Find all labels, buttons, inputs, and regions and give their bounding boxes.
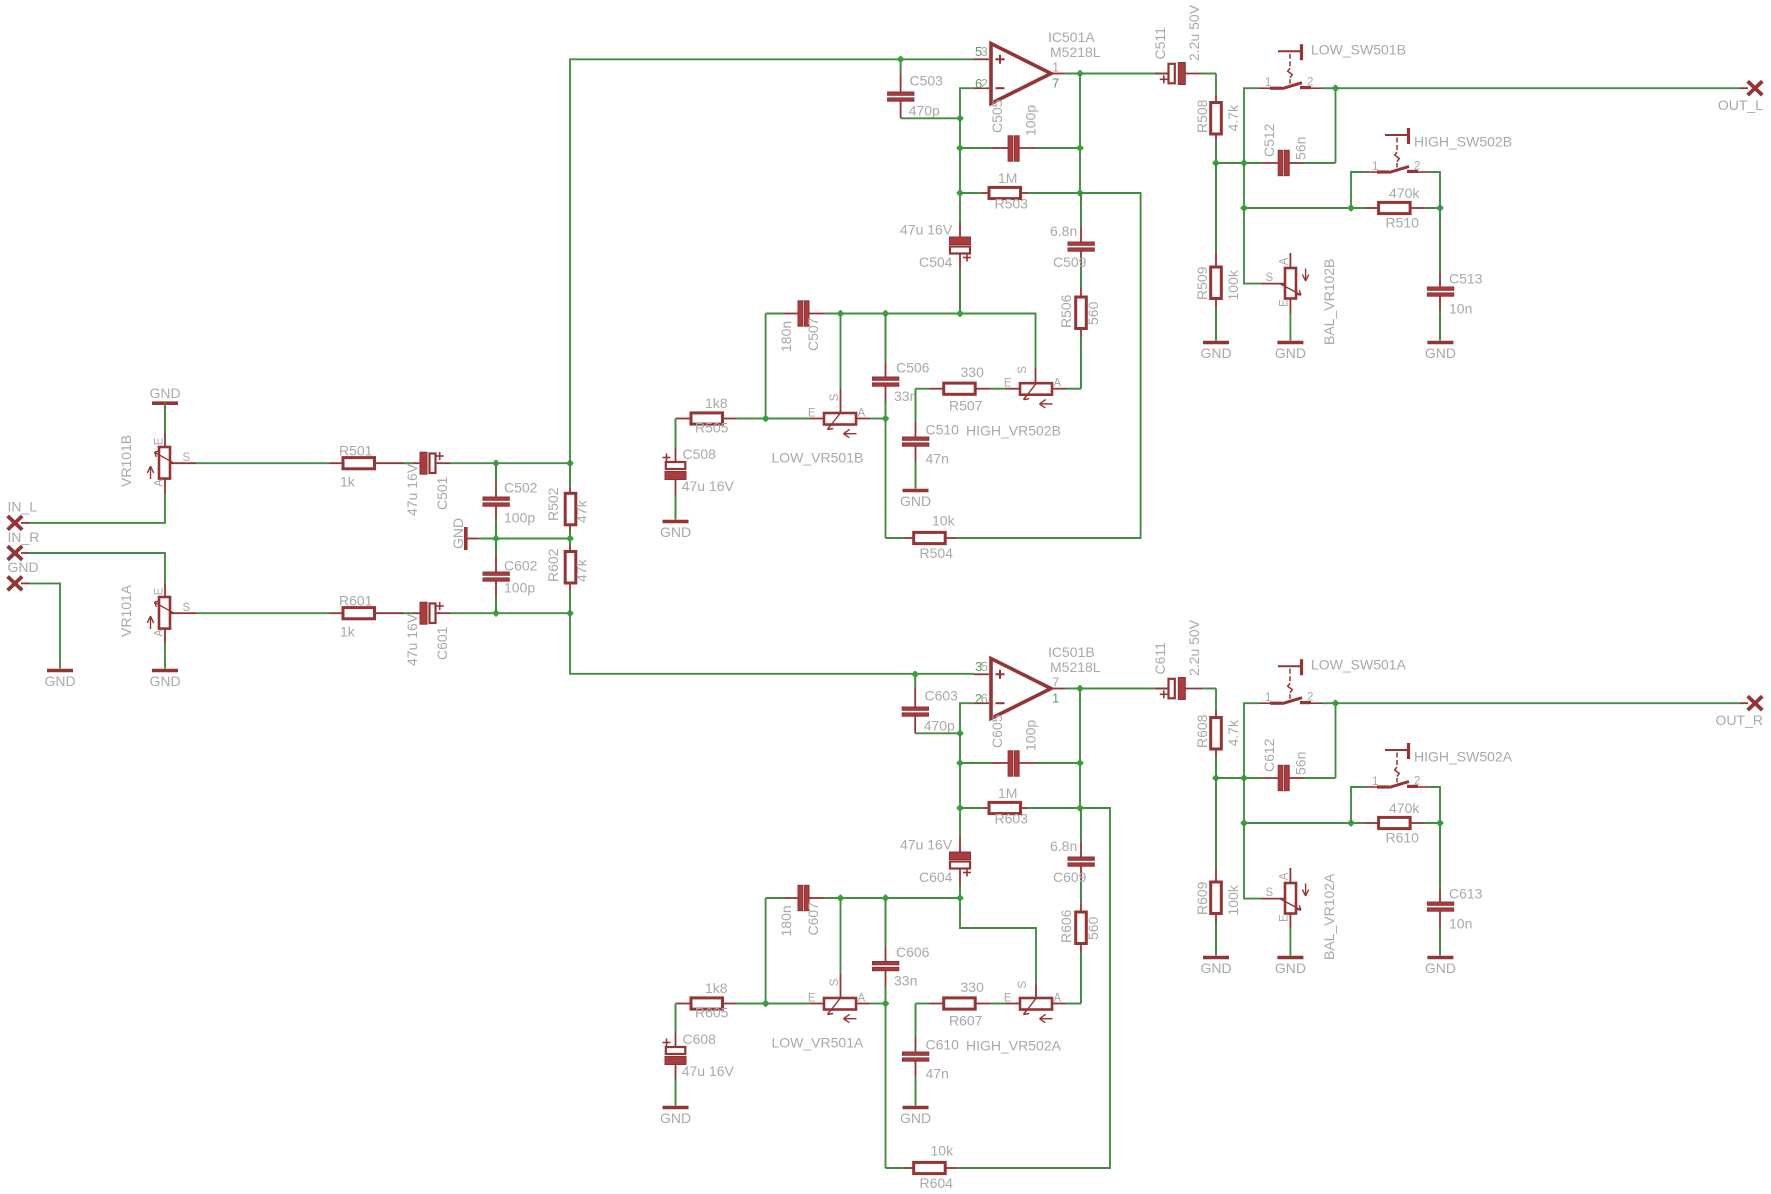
pin label E of LOW_VR501A [808,992,816,1004]
junction at R503 right / C509 top [1076,189,1084,197]
svg-text:A: A [154,629,166,637]
value 1k of R601 [340,624,356,640]
svg-text:S: S [183,452,191,464]
capacitor C501 (47u 16V electrolytic) [404,452,450,474]
wire riser down to BAL_VR102B wiper [1244,208,1261,284]
resistor R502 [565,463,576,538]
wire -input node down to C504/R503 branch [959,118,961,222]
label C503 [910,73,944,89]
svg-text:GND: GND [149,385,180,401]
capacitor C604 (47u 16V electrolytic) [950,837,972,898]
svg-text:GND: GND [1200,345,1231,361]
label IN_L [8,499,38,515]
svg-text:10k: 10k [932,513,956,529]
junction R610 right [1436,819,1444,827]
label C504 [919,254,953,270]
potentiometer BAL_VR102B [1261,253,1309,314]
wire riser to LOW_SW501A pin 1 [1244,703,1259,778]
capacitor C502 (100p) [483,463,509,538]
svg-text:R608: R608 [1194,714,1210,748]
junction at + rail / C503 [897,55,905,63]
wire -input node down to C504/R503 branch [959,733,961,837]
junction riser at R510 row [1240,204,1248,212]
svg-text:2: 2 [1414,775,1420,787]
junction output node [1076,685,1084,693]
svg-text:6: 6 [981,691,988,706]
svg-text:C510: C510 [926,422,960,438]
svg-text:C606: C606 [896,944,930,960]
svg-text:47k: 47k [574,558,590,582]
node IN_R (X mark) [8,546,30,560]
value 47u 16V of C501 [404,463,420,516]
svg-text:A: A [858,407,866,419]
wire -input of IC501A [960,88,974,118]
value 1k of R501 [340,474,356,490]
svg-text:1k8: 1k8 [705,980,728,996]
pin label E of HIGH_VR502A [1004,992,1012,1004]
capacitor C512 (56n) [1262,150,1336,175]
junction summing node (LOW_VR501B A / C506 / R504) [882,415,890,423]
svg-text:R604: R604 [920,1175,954,1191]
wire feedback loop to R604 [956,808,1110,1168]
label R503 [995,196,1029,212]
pin label E of BAL_VR102A [1279,914,1291,922]
wire tone rail (wiper bus) [766,313,960,315]
node IN_L (X mark) [8,516,30,530]
capacitor C602 (100p) [483,539,509,614]
label C601 [434,626,450,660]
value 10n of C613 [1449,916,1472,932]
svg-text:180n: 180n [778,905,794,936]
svg-text:GND: GND [660,524,691,540]
junction at riser x1244 [1240,774,1248,782]
label R610 [1386,830,1420,846]
value 470k of R510 [1389,185,1420,201]
capacitor C510 (47n) [903,389,929,489]
value 1k8 of R505 [705,395,728,411]
pin label E of VR101B [154,437,166,445]
wire output node down to feedback [1079,74,1081,194]
switch HIGH_SW502B [1351,128,1440,208]
wire node A up to IC501A + rail [570,59,974,463]
svg-text:C612: C612 [1261,738,1277,772]
svg-text:GND: GND [450,518,466,549]
label R604 [920,1175,954,1191]
svg-text:R507: R507 [949,398,983,414]
svg-text:GND: GND [1200,960,1231,976]
junction at riser x1244 [1240,159,1248,167]
svg-text:1: 1 [1052,691,1059,706]
svg-text:E: E [1004,378,1012,390]
svg-text:C511: C511 [1152,27,1168,60]
label HIGH_VR502A [966,1037,1062,1053]
wire LOW_VR501A wiper riser [840,898,842,998]
svg-text:1: 1 [1265,77,1271,89]
svg-text:GND: GND [1425,345,1456,361]
value 1M of R603 [998,785,1017,801]
wire R505 to LOW_VR501B pin E [766,418,810,420]
value 47n of C510 [926,451,949,467]
label R508 [1194,99,1210,133]
wire rail corner down to HIGH_VR502B wiper [960,314,1036,384]
pin number 7 (out, green) of IC501A [1052,76,1059,91]
svg-text:GND: GND [900,493,931,509]
svg-text:C609: C609 [1053,869,1087,885]
wire VR101A pin A to ground [164,644,166,669]
junction at C502/C602 mid [492,535,500,543]
value 470p of C503 [909,103,940,119]
svg-text:S: S [1266,887,1274,899]
wire GND input to ground symbol [30,583,60,668]
label C501 [434,476,450,510]
junction at C505 right [1076,144,1084,152]
svg-text:E: E [1279,914,1291,922]
pin label S of HIGH_VR502B [1017,366,1029,374]
pin number 1 of HIGH_SW502A [1372,776,1378,788]
svg-text:GND: GND [660,1110,691,1126]
value 33n of C606 [894,973,917,989]
wire VR101A wiper to R601 [196,612,329,614]
wire -input of IC501B [960,703,974,733]
ground GND (below C608) [660,1108,691,1127]
resistor R602 [565,539,576,614]
svg-text:470k: 470k [1389,800,1420,816]
ground GND (below C610) [900,1108,931,1127]
svg-text:C502: C502 [504,480,538,496]
svg-text:GND: GND [1275,345,1306,361]
svg-text:C509: C509 [1053,254,1087,270]
wire LOW_VR501B pin A to summing node [870,418,886,420]
svg-text:47u 16V: 47u 16V [900,222,953,238]
pin number 2 of LOW_SW501B [1307,77,1313,89]
junction -input node [956,729,964,737]
svg-text:C608: C608 [683,1031,717,1047]
svg-text:BAL_VR102A: BAL_VR102A [1321,873,1337,960]
value 47u 16V of C508 [682,478,735,494]
label C610 [926,1037,960,1053]
value 100p of C602 [504,580,535,596]
svg-text:C602: C602 [504,558,538,574]
resistor R503 (1M) [960,187,1080,198]
svg-text:VR101B: VR101B [118,435,134,487]
label VR101A [118,584,134,637]
svg-text:A: A [1279,872,1291,880]
resistor R508 (4.7k) [1211,74,1222,164]
svg-text:C504: C504 [919,254,953,270]
junction at C505 left [956,144,964,152]
label C604 [919,869,953,885]
wire ground to bias divider mid node [478,538,570,540]
pin label A of HIGH_VR502B [1054,378,1062,390]
junction at R603 right / C609 top [1076,804,1084,812]
label C606 [896,944,930,960]
svg-text:560: 560 [1085,916,1101,940]
label C609 [1053,869,1087,885]
capacitor C611 (2.2u 50V electrolytic) [1155,678,1216,700]
label BAL_VR102B [1321,259,1337,345]
wire riser down to R510 row [1243,163,1245,208]
svg-text:HIGH_VR502B: HIGH_VR502B [966,423,1061,439]
svg-text:47u 16V: 47u 16V [682,1063,735,1079]
svg-text:56n: 56n [1293,752,1309,775]
wire C601 to bias node B (net to R602 bottom) [450,612,570,614]
svg-text:R610: R610 [1386,830,1420,846]
svg-text:S: S [1017,366,1029,374]
svg-text:E: E [154,587,166,595]
label R601 [339,593,373,609]
label HIGH_VR502B [966,423,1061,439]
svg-text:6.8n: 6.8n [1050,223,1077,239]
pin number 6 (-in, green) of IC501A [975,76,982,91]
svg-text:R505: R505 [695,420,729,436]
svg-text:560: 560 [1085,301,1101,325]
label OUT_R [1716,712,1763,728]
pin number 1 of LOW_SW501A [1265,692,1271,704]
label R504 [920,545,954,561]
svg-text:IN_R: IN_R [8,529,40,545]
label R505 [695,420,729,436]
ground GND (below R609) [1200,958,1231,977]
svg-text:10k: 10k [931,1143,955,1159]
ground GND (below C513) [1425,343,1456,362]
junction at R603 left [956,804,964,812]
potentiometer LOW_VR501B [810,413,870,438]
junction output node [1076,70,1084,78]
svg-text:OUT_L: OUT_L [1718,97,1763,113]
label LOW_SW501B [1311,42,1406,58]
svg-text:C610: C610 [926,1037,960,1053]
wire output node of IC501B [1065,688,1168,690]
value M5218L of IC501B [1050,659,1101,675]
label C512 [1261,123,1277,157]
junction at node A / R502 top [566,459,574,467]
wire LOW_VR501A pin A to summing node [870,1003,886,1005]
wire BAL_VR102B pin E to ground [1289,314,1291,341]
ground GND (above VR101B) [149,385,180,433]
svg-text:C605: C605 [989,714,1005,748]
svg-text:S: S [1266,272,1274,284]
resistor R609 (100k) [1211,778,1222,956]
label C612 [1261,738,1277,772]
wire riser to LOW_SW501B pin 1 [1244,88,1259,163]
label LOW_VR501A [772,1035,864,1051]
svg-text:VR101A: VR101A [118,584,134,637]
pin label A of VR101B [154,479,166,487]
junction at R502/R602 mid [566,535,574,543]
label IC501A [1048,29,1095,45]
svg-text:R606: R606 [1058,909,1074,943]
pin label A of LOW_VR501A [858,992,866,1004]
svg-text:10n: 10n [1449,916,1472,932]
label R509 [1194,266,1210,300]
svg-text:GND: GND [149,673,180,689]
pin label S of LOW_VR501A [829,978,841,986]
value 180n of C607 [778,905,794,936]
svg-text:R609: R609 [1194,881,1210,915]
junction at R503 left [956,189,964,197]
svg-text:2: 2 [981,76,988,91]
svg-text:R509: R509 [1194,266,1210,300]
junction tone rail at LOW_VR501B wiper [837,310,845,318]
svg-text:LOW_SW501A: LOW_SW501A [1311,657,1407,673]
value 47u 16V of C601 [404,613,420,666]
pin label A of LOW_VR501B [858,407,866,419]
value 100p of C502 [504,510,535,526]
label R507 [949,398,983,414]
value 47u 16V of C504 [900,222,953,238]
wire C603 to -input node [915,732,960,734]
svg-text:1M: 1M [998,170,1017,186]
resistor R501 [329,458,404,469]
svg-text:100p: 100p [504,580,535,596]
label IN_R [8,529,40,545]
svg-text:E: E [1004,992,1012,1004]
label BAL_VR102A [1321,873,1337,960]
label C510 [926,422,960,438]
capacitor C601 (47u 16V electrolytic) [404,602,450,624]
capacitor C612 (56n) [1262,765,1336,790]
svg-text:S: S [829,978,841,986]
pin label A of VR101A [154,629,166,637]
value 6.8n of C509 [1050,223,1077,239]
svg-text:47u 16V: 47u 16V [404,613,420,666]
value 10n of C513 [1449,301,1472,317]
op-amp IC501B [974,659,1065,719]
svg-text:HIGH_SW502B: HIGH_SW502B [1414,133,1512,149]
wire node B down to IC501B + rail [570,613,974,674]
junction at R605 / LOW_VR501A pin E [762,1000,770,1008]
junction tone rail at C604 bottom [956,894,964,902]
wire summing node down to R604 [885,1004,887,1169]
svg-text:A: A [154,479,166,487]
svg-text:33n: 33n [894,973,917,989]
pin number 6 (-in) of IC501B [981,691,988,706]
junction at + rail / C603 [911,670,919,678]
value 33n of C506 [894,388,917,404]
potentiometer HIGH_VR502B [1006,383,1081,408]
capacitor C507 (180n) [783,301,825,326]
value 100p of C605 [1023,720,1039,751]
junction summing node (LOW_VR501A A / C606 / R604) [882,1000,890,1008]
label C605 [989,714,1005,748]
wire summing node down to R504 [885,419,887,539]
capacitor C513 (10n) [1427,208,1453,341]
capacitor C610 (47n) [903,1004,929,1106]
value 47n of C610 [926,1066,949,1082]
potentiometer HIGH_VR502A [1006,998,1081,1023]
junction tone rail at LOW_VR501A wiper [837,894,845,902]
svg-text:HIGH_SW502A: HIGH_SW502A [1414,748,1513,764]
value 1M of R503 [998,170,1017,186]
label C613 [1449,886,1483,902]
svg-text:56n: 56n [1293,137,1309,160]
svg-text:C604: C604 [919,869,953,885]
svg-text:R605: R605 [695,1005,729,1021]
value 47k of R602 [574,558,590,582]
svg-text:LOW_SW501B: LOW_SW501B [1311,42,1406,58]
label R506 [1058,294,1074,328]
label LOW_VR501B [772,450,864,466]
junction out rail at C512 [1332,84,1340,92]
pin label S of VR101B [183,452,191,464]
wire C512 right up to out rail [1322,88,1336,163]
svg-text:4.7k: 4.7k [1225,104,1241,131]
wire rail jog down to HIGH_VR502A wiper [960,898,1036,998]
label R602 [545,548,561,582]
svg-text:33n: 33n [894,388,917,404]
svg-text:OUT_R: OUT_R [1716,712,1763,728]
capacitor C511 (2.2u 50V electrolytic) [1155,63,1216,85]
capacitor C607 (180n) [783,885,825,910]
node OUT_R (X mark) [1748,696,1763,710]
pin number 2 of HIGH_SW502B [1414,160,1420,172]
switch LOW_SW501B [1259,44,1322,88]
op-amp IC501A [974,44,1065,104]
svg-text:7: 7 [1052,76,1059,91]
wire C503 to -input node [901,117,960,119]
svg-text:C513: C513 [1449,271,1483,287]
svg-text:470k: 470k [1389,185,1420,201]
svg-text:47u 16V: 47u 16V [404,463,420,516]
junction R508 bottom node [1212,159,1220,167]
label R501 [339,443,373,459]
svg-text:47n: 47n [926,1066,949,1082]
svg-text:C607: C607 [805,902,821,936]
wire output node of IC501A [1065,73,1168,75]
svg-text:A: A [1054,992,1062,1004]
svg-text:47u 16V: 47u 16V [682,478,735,494]
svg-text:R508: R508 [1194,99,1210,133]
label C507 [805,317,821,351]
pin number 2 (-in) of IC501A [981,76,988,91]
junction at node B / R602 bottom [566,609,574,617]
svg-text:1k: 1k [340,474,356,490]
capacitor C613 (10n) [1427,823,1453,956]
resistor R604 (10k) [886,1162,957,1173]
svg-text:A: A [858,992,866,1004]
value 47u 16V of C604 [900,837,953,853]
svg-text:GND: GND [900,1110,931,1126]
junction tone rail at C506 top [882,310,890,318]
svg-text:2.2u 50V: 2.2u 50V [1186,619,1202,676]
label C508 [683,446,717,462]
label OUT_L [1718,97,1763,113]
resistor R601 [329,608,404,619]
value 1k8 of R605 [705,980,728,996]
pin label E of HIGH_VR502B [1004,378,1012,390]
label C611 [1152,642,1168,675]
wire feedback loop to R504 [956,193,1141,538]
wire tone rail (wiper bus) [766,897,960,899]
svg-text:330: 330 [961,979,985,995]
junction R510 left [1347,204,1355,212]
pin number 1 of LOW_SW501B [1265,77,1271,89]
svg-text:C506: C506 [896,360,930,376]
svg-text:1: 1 [1052,60,1059,75]
svg-text:R510: R510 [1386,215,1420,231]
label GND (input) [8,559,39,575]
svg-text:180n: 180n [778,321,794,352]
svg-text:S: S [183,602,191,614]
svg-text:GND: GND [1275,960,1306,976]
svg-text:C508: C508 [683,446,717,462]
svg-text:E: E [808,992,816,1004]
pin label E of VR101A [154,587,166,595]
wire R610 row [1244,822,1364,824]
resistor R505 (1k8) [677,413,766,424]
pin label S of BAL_VR102A [1266,887,1274,899]
wire out rail to OUT_R [1336,702,1749,704]
